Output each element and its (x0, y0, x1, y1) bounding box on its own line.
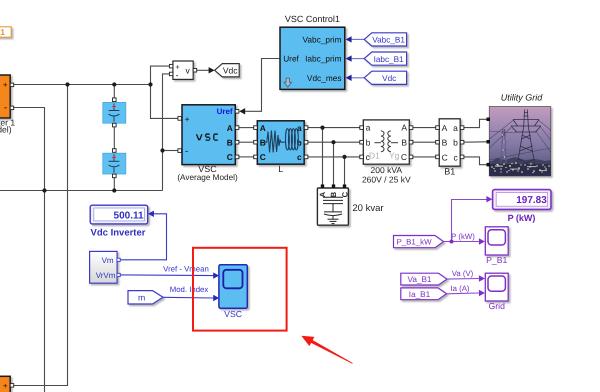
svg-text:Vdc_mes: Vdc_mes (307, 73, 342, 83)
annotation red arrow (301, 336, 352, 364)
tag Goto 1 (orange, clipped) (0, 27, 11, 37)
junction phase C tap (342, 155, 346, 159)
svg-text:-: - (185, 146, 188, 157)
ports of L (254, 126, 258, 130)
ports of B1 (436, 126, 440, 130)
annotation red box (193, 248, 287, 331)
tag From Ia_B1 (401, 288, 447, 300)
wire Vm to display (120, 214, 166, 260)
wire transformer B to B1 (413, 141, 436, 143)
svg-text:C: C (401, 152, 407, 162)
svg-text:c: c (454, 152, 459, 162)
svg-text:(Average Model): (Average Model) (177, 173, 238, 182)
arrowhead Vdc_mes (346, 75, 352, 81)
wire DC+ to VSC plus (151, 85, 178, 119)
tag From Iabc_B1 (364, 52, 406, 65)
junction DC- at capacitor chain (112, 188, 116, 192)
svg-text:(model): (model) (0, 125, 12, 135)
ports of VSC (178, 117, 182, 121)
left tower structure (501, 129, 508, 163)
svg-text:B: B (329, 191, 338, 197)
wire transformer C to B1 (413, 156, 436, 158)
block VSC (Average Model) (177, 105, 239, 182)
wire transformer A to B1 (413, 127, 436, 129)
wire Iabc_B1 to control (352, 58, 365, 60)
svg-text:VSC: VSC (224, 309, 242, 319)
svg-text:P (kW): P (kW) (451, 232, 475, 241)
block Utility Grid (photo) (487, 92, 552, 176)
scope P_B1 (485, 227, 508, 265)
tag From P_B1_kW (394, 236, 444, 248)
svg-text:200 kVA: 200 kVA (371, 165, 403, 175)
svg-text:c: c (297, 152, 302, 162)
arrowhead into P_B1 scope (479, 238, 485, 244)
svg-text:v: v (186, 66, 191, 76)
ports of Utility Grid (487, 118, 491, 122)
svg-text:C: C (340, 191, 349, 197)
svg-text:+: + (3, 81, 8, 90)
city strip (489, 162, 550, 176)
junction DC+ at inverter2 riser (65, 82, 69, 86)
arrowhead into Vdc goto (209, 67, 215, 73)
wire inverter2 plus riser (14, 85, 68, 386)
svg-text:Va (V): Va (V) (452, 269, 474, 278)
wire L c to transformer (308, 156, 360, 158)
wire Vabc_B1 to control (352, 38, 365, 40)
svg-text:L: L (278, 164, 283, 174)
haze (489, 138, 550, 164)
catenary wires (489, 121, 550, 161)
wire Ia_B1 to Grid scope (447, 292, 479, 295)
svg-text:Utility Grid: Utility Grid (501, 92, 543, 102)
wire B1 a to grid (464, 119, 487, 127)
ports of load (321, 184, 324, 187)
subsystem VSC (detailed) (219, 265, 247, 319)
svg-text:VrVm: VrVm (96, 271, 116, 280)
junction DC- at inverter1 minus (42, 188, 46, 192)
voltmeter U-Vdc (169, 61, 196, 80)
ports of T1 (360, 126, 364, 130)
wire L b to transformer (308, 141, 360, 143)
wires from tags to VSC Control1 (352, 39, 365, 77)
wire m to VSC subsystem (163, 296, 214, 299)
svg-text:Uref: Uref (217, 107, 233, 116)
svg-text:a: a (453, 123, 458, 133)
arrowhead Uref into VSC (239, 108, 245, 114)
junction DC- at VSC minus branch (160, 148, 164, 152)
svg-text:260V / 25 kV: 260V / 25 kV (362, 174, 411, 184)
icon RLC to ground (323, 197, 343, 223)
svg-text:Grid: Grid (488, 301, 505, 311)
display P (kW) 197.83 (493, 190, 551, 223)
junction P kW (450, 240, 454, 244)
svg-text:Iabc_B1: Iabc_B1 (374, 55, 404, 64)
wire DC+ rail (14, 84, 151, 86)
tag From Vabc_B1 (364, 33, 406, 46)
wire VSC C to L (239, 156, 254, 158)
icon link arrow (284, 78, 292, 87)
transformer T1 200 kVA (360, 120, 413, 184)
tag From m (128, 291, 163, 304)
svg-text:a: a (366, 123, 371, 133)
svg-text:Ia (A): Ia (A) (450, 284, 469, 293)
junction DC+ at voltmeter branch (148, 82, 152, 86)
wire L a to transformer (308, 127, 360, 129)
arrowhead Vabc_prim (346, 36, 352, 42)
capacitor C1 (103, 98, 126, 127)
icon seven-segment VSC (197, 134, 218, 140)
svg-text:Va_B1: Va_B1 (408, 275, 432, 284)
wire rail to C1 (113, 85, 115, 98)
svg-text:B: B (260, 137, 266, 147)
svg-text:Ia_B1: Ia_B1 (409, 290, 431, 299)
display Vdc Inverter 500.11 (90, 205, 148, 238)
svg-text:Vdc: Vdc (382, 74, 396, 83)
svg-text:B: B (227, 137, 233, 147)
block B1 measurement (436, 119, 464, 177)
svg-text:Uref: Uref (283, 54, 299, 64)
block Vm VrVm measurements (90, 251, 121, 283)
arrowhead Ia into Grid scope (479, 290, 485, 296)
svg-text:VSC Control1: VSC Control1 (285, 14, 340, 24)
wire inverter2 minus drop (44, 191, 46, 392)
tag Goto Vdc (215, 64, 240, 77)
wire phase A tap to load (322, 128, 324, 185)
wire B1 b to grid (464, 141, 487, 143)
arrowhead into display 197.83 (486, 196, 492, 202)
svg-text:Yg: Yg (389, 150, 400, 160)
tag From Vdc (364, 71, 406, 84)
wire C1 to C2 (113, 127, 115, 150)
wire phase C tap to load (344, 157, 346, 185)
svg-text:P_B1: P_B1 (486, 255, 507, 265)
junction phase B tap (331, 140, 335, 144)
arrowhead Iabc_prim (346, 55, 352, 61)
junction phase A tap (320, 126, 324, 130)
wire voltmeter out to Vdc goto (197, 69, 210, 71)
icon inductor graphic (265, 129, 301, 153)
svg-text:b: b (366, 137, 371, 147)
wire Vdc to control (352, 77, 365, 79)
arrowhead Vref into VSC (213, 272, 219, 278)
icon windings (374, 131, 398, 152)
arrowhead into display (148, 211, 154, 217)
wire voltmeter minus to DC- (163, 74, 170, 191)
wire VSC A to L (239, 127, 254, 129)
svg-text:B: B (442, 138, 448, 148)
svg-text:Mod. Index: Mod. Index (170, 285, 209, 294)
svg-text:Vdc: Vdc (223, 65, 238, 75)
block Inverter 2 (clipped bottom-left) (0, 376, 14, 392)
svg-text:Iabc_prim: Iabc_prim (305, 54, 342, 64)
city lights (491, 134, 550, 172)
svg-text:1: 1 (0, 27, 5, 37)
svg-text:Vabc_prim: Vabc_prim (302, 34, 341, 44)
svg-text:b: b (453, 138, 458, 148)
svg-text:Vm: Vm (102, 256, 114, 265)
svg-text:B: B (401, 137, 407, 147)
arrowhead Va into Grid scope (479, 275, 485, 281)
wire Uref control to VSC (245, 59, 280, 112)
block L (254, 121, 308, 174)
svg-text:+: + (3, 381, 8, 390)
wire phase B tap to load (333, 142, 335, 184)
svg-text:P_B1_kW: P_B1_kW (396, 238, 432, 247)
scope Grid (485, 273, 508, 311)
capacitor C2 (103, 149, 126, 178)
svg-text:A: A (318, 191, 327, 197)
svg-text:A: A (260, 123, 266, 133)
wire inverter1 minus (14, 108, 45, 191)
wire VrVm to VSC subsystem (120, 274, 213, 277)
svg-text:20 kvar: 20 kvar (352, 203, 383, 214)
svg-text:C: C (442, 152, 448, 162)
svg-text:C: C (227, 152, 233, 162)
svg-text:A: A (227, 123, 233, 133)
tag From Va_B1 (401, 273, 447, 285)
wire Va_B1 to Grid scope (447, 278, 479, 281)
wire DC- bus (0, 190, 163, 192)
svg-text:+: + (185, 114, 190, 124)
svg-text:Vdc Inverter: Vdc Inverter (91, 228, 146, 239)
wire C2 to bus (113, 178, 115, 191)
svg-text:m: m (138, 293, 145, 303)
svg-text:D1: D1 (369, 150, 380, 160)
wire DC- to VSC minus (163, 150, 178, 152)
svg-text:-: - (4, 102, 7, 113)
svg-text:-: - (176, 70, 179, 80)
svg-text:Vref - Vmean: Vref - Vmean (163, 265, 209, 274)
load 20 kvar (317, 184, 383, 225)
svg-text:P (kW): P (kW) (508, 213, 536, 223)
svg-text:C: C (260, 152, 266, 162)
pylon lattice (511, 110, 541, 176)
svg-text:A: A (442, 123, 448, 133)
mountains (527, 159, 551, 176)
arrowhead m into VSC (213, 295, 219, 301)
junction DC+ at capacitor chain (112, 82, 116, 86)
wire B1 c to grid (464, 157, 487, 165)
wire VSC B to L (239, 141, 254, 143)
wire DC+ to voltmeter plus (151, 66, 170, 84)
block VSC Control1 (280, 14, 345, 89)
svg-text:197.83: 197.83 (516, 195, 547, 206)
svg-text:A: A (401, 123, 407, 133)
svg-text:B1: B1 (444, 167, 455, 177)
svg-text:Vabc_B1: Vabc_B1 (372, 36, 405, 45)
svg-text:500.11: 500.11 (114, 211, 144, 222)
wire P_B1_kW to scope and display (444, 200, 488, 242)
block Inverter 1 (0, 75, 15, 135)
